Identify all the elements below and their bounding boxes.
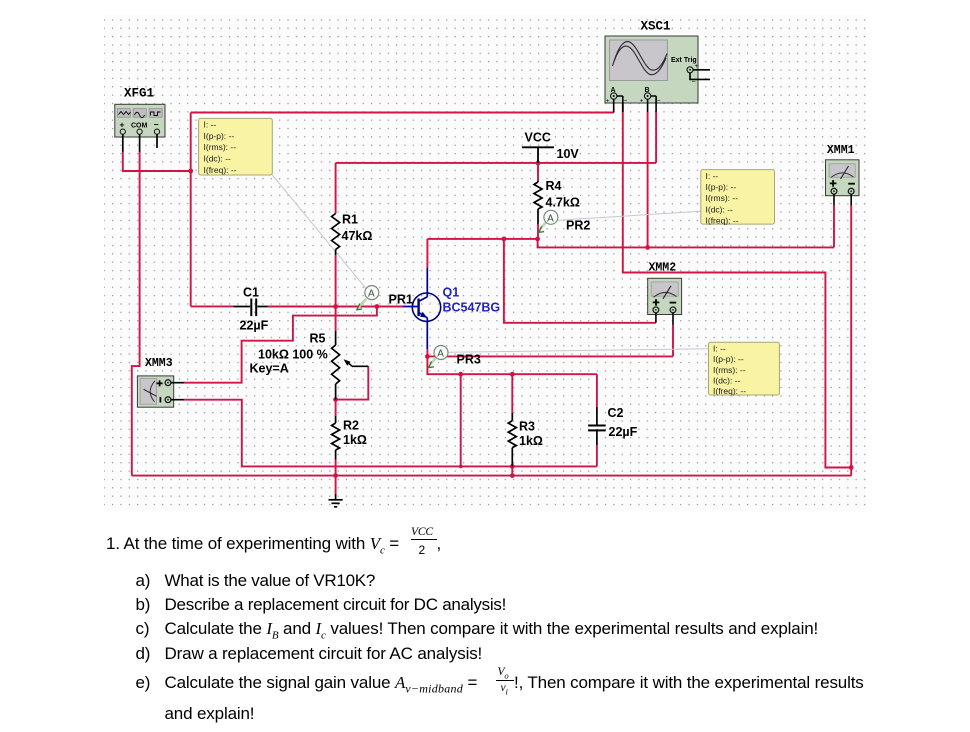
resistor R4 [534,179,580,224]
potentiometer R5 [250,331,369,400]
wire R3 top [511,374,513,413]
svg-text:C1: C1 [243,286,259,300]
wire collector rail [427,239,834,268]
svg-text:A: A [547,213,554,224]
svg-text:VCC: VCC [525,131,551,145]
multimeter XMM1 [826,144,860,206]
svg-text:Key=A: Key=A [250,362,289,376]
svg-text:C2: C2 [608,406,624,420]
wire loop vertical [460,374,462,466]
wire R4 bottom [537,224,539,239]
wire XMM1 plus [833,205,835,247]
svg-text:−: − [154,120,159,130]
multimeter XMM2 [648,261,682,325]
multimeter XMM3 [137,357,184,407]
svg-text:I(p-p): --: I(p-p): -- [706,182,737,192]
svg-text:−: − [692,79,696,86]
svg-text:I(rms): --: I(rms): -- [713,365,746,375]
svg-text:I(p-p): --: I(p-p): -- [204,131,235,141]
wire emitter red [426,349,428,356]
wire XFG1 plus down-right to node [123,152,191,171]
canvas background [104,15,866,511]
probe PR1 [357,286,413,310]
svg-text:1kΩ: 1kΩ [343,433,367,447]
svg-text:R5: R5 [310,332,326,346]
wire XMM1 minus [850,205,852,476]
tooltip box 3 [709,342,780,396]
wire C1 feed [191,305,234,307]
wire node vertical to C1 [190,113,192,307]
wire emitter to XMM2 minus [427,325,673,356]
wire R2 bottom to ground [335,460,337,495]
svg-text:Ext Trig: Ext Trig [671,57,697,64]
wire R3 stub [511,466,513,475]
oscilloscope XSC1 [605,20,710,113]
svg-text:I(freq): --: I(freq): -- [713,386,746,396]
svg-text:I(dc): --: I(dc): -- [204,154,232,164]
svg-text:I: --: I: -- [713,344,726,354]
svg-text:COM: COM [131,123,148,130]
wire staircase to XMM3 plus [184,307,377,383]
svg-text:I(freq): --: I(freq): -- [204,165,237,175]
svg-text:+: + [120,120,125,130]
svg-text:PR3: PR3 [457,353,481,367]
wire R2 top [335,400,337,416]
svg-text:PR2: PR2 [566,219,590,233]
svg-text:I(rms): --: I(rms): -- [706,193,739,203]
svg-text:XSC1: XSC1 [641,20,671,34]
transistor Q1 [403,268,500,349]
probe PR2 [539,210,591,232]
svg-text:Q1: Q1 [443,286,460,300]
capacitor C1 [233,286,268,333]
wire VCC rail [336,112,656,214]
svg-text:R2: R2 [343,419,359,433]
capacitor C2 [588,406,638,445]
wire XFG1 COM down left side [132,152,140,476]
svg-text:I(dc): --: I(dc): -- [706,204,734,214]
svg-text:−: − [624,97,628,104]
svg-text:BC547BG: BC547BG [443,301,501,315]
svg-text:I(rms): --: I(rms): -- [204,142,237,152]
tooltip box 1 [199,118,273,175]
tooltip box 2 [701,170,775,226]
svg-text:+: + [640,98,644,104]
svg-text:47kΩ: 47kΩ [342,229,373,243]
wire scope B plus down [647,112,649,247]
svg-text:A: A [368,289,375,300]
wire base node [268,306,403,308]
svg-text:XMM2: XMM2 [649,261,677,274]
svg-text:10kΩ 100 %: 10kΩ 100 % [258,348,328,362]
svg-text:XFG1: XFG1 [124,87,154,101]
leader line 3 [448,349,709,353]
svg-text:I: --: I: -- [204,120,217,130]
svg-text:I(p-p): --: I(p-p): -- [713,354,744,364]
resistor R1 [332,213,373,256]
svg-text:PR1: PR1 [389,293,413,307]
svg-text:+: + [606,98,610,104]
wire emitter bottom branch [427,356,597,374]
svg-text:R4: R4 [546,179,562,193]
svg-text:4.7kΩ: 4.7kΩ [546,196,580,210]
VCC power symbol [522,131,579,163]
svg-text:10V: 10V [557,147,580,161]
svg-text:XMM1: XMM1 [827,144,855,157]
wire C2 leads [596,374,598,466]
wire R5 top [335,307,337,332]
svg-text:R1: R1 [342,213,358,227]
wire bottom ground rail [132,475,851,477]
probe PR3 [429,346,481,368]
svg-text:XMM3: XMM3 [145,357,173,370]
wire R5 wiper loop [336,366,369,399]
ground [329,494,343,507]
svg-text:+: + [695,63,699,70]
svg-text:R3: R3 [519,420,535,434]
svg-text:22µF: 22µF [609,425,638,439]
function generator XFG1 [115,87,165,153]
wire scope A minus path [623,103,851,468]
svg-text:A: A [437,349,444,360]
leader line 1 [272,175,366,289]
wire XMM3 minus to C2 bottom [184,400,597,467]
svg-text:22µF: 22µF [240,319,269,333]
svg-text:I(freq): --: I(freq): -- [706,216,739,226]
wire R1 bottom [335,255,337,306]
wire R4 top [537,163,539,181]
question text [106,534,399,556]
wire top rail to scope A+ [191,112,614,114]
svg-text:1kΩ: 1kΩ [519,434,543,448]
svg-text:I(dc): --: I(dc): -- [713,375,741,385]
resistor R2 [332,416,367,460]
leader line 2 [558,211,701,220]
svg-text:−: − [657,97,661,104]
svg-text:I: --: I: -- [706,171,719,181]
wire XMM2 plus drop [504,239,656,323]
resistor R3 [508,413,543,466]
